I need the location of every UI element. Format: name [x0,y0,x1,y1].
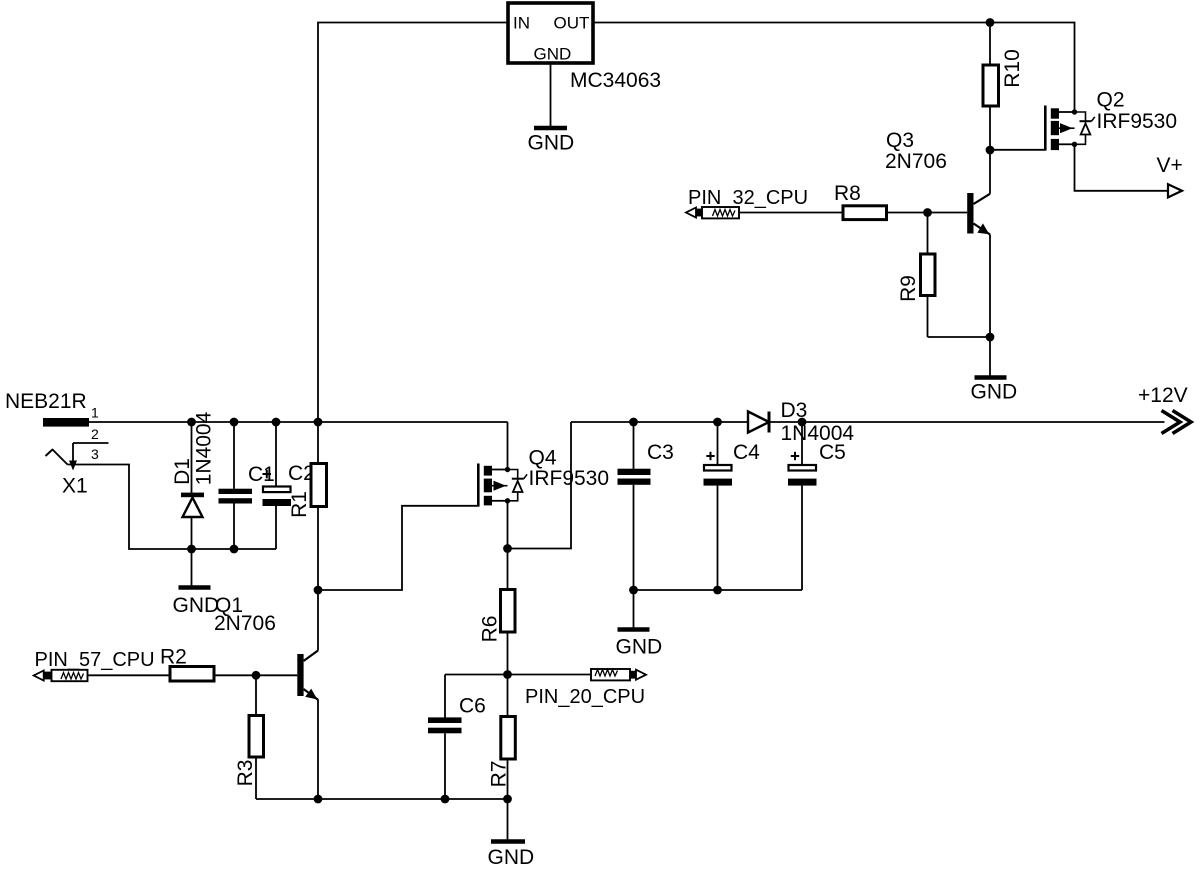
wire pin 3 switch to ground bus [68,465,277,550]
wire Q4 source to node [507,501,509,590]
junction input rail / C2 [272,418,281,427]
resistor R8 [843,206,887,220]
connector X1 pin 3 switch [46,450,68,465]
wire node to C6 [445,674,508,676]
svg-text:C4: C4 [733,441,760,464]
junction Q4 source / R6 / output riser [503,544,512,553]
resistor R7 [501,675,516,800]
wire node to PIN_20_CPU [508,674,592,676]
connector X1 pin 1 blade [43,418,89,427]
resistor R2 [170,667,214,682]
junction ground bus / D1 [187,545,196,554]
junction bottom bus / C6 [441,795,450,804]
wire R8 to Q3 base [887,212,968,214]
output ground bus [634,589,803,591]
svg-text:GND: GND [616,636,663,659]
transistor Q1 2N706 [297,590,318,799]
svg-text:GND: GND [971,381,1018,404]
junction bottom bus / R7 [503,795,512,804]
svg-text:IRF9530: IRF9530 [529,467,610,490]
svg-text:Q2: Q2 [1097,89,1125,112]
ground symbol below Q3 [975,337,1007,378]
connector PIN_57_CPU [34,670,88,681]
connector X1 pin 2 stub [73,443,109,462]
svg-text:GND: GND [173,594,220,617]
resistor R6 [501,590,516,675]
ground symbol below D1 [179,549,211,588]
junction bottom bus / Q1 emitter [314,795,323,804]
wire node to Q2 gate [990,149,1045,151]
junction input rail / C1 [230,418,239,427]
V+ output arrow [1168,184,1182,197]
svg-text:+12V: +12V [1138,384,1188,407]
body diode of Q4 [508,470,528,501]
svg-text:PIN_57_CPU: PIN_57_CPU [35,649,155,671]
svg-text:3: 3 [91,446,99,462]
svg-text:GND: GND [528,132,575,155]
junction R10 / Q3 collector / Q2 gate [986,146,995,155]
wire R2 to Q1 base [214,674,297,676]
junction R1 bottom / Q1 collector / Q4 gate [314,586,323,595]
svg-text:IRF9530: IRF9530 [1097,110,1178,133]
capacitor C2 polarized [263,422,292,549]
svg-text:MC34063: MC34063 [570,69,661,92]
+12V output arrow [1162,411,1192,434]
junction output ground bus / C4 [713,586,722,595]
plus sign of C5 [791,452,799,460]
svg-text:IN: IN [513,14,530,33]
svg-text:R7: R7 [488,761,511,788]
junction output rail / C3 [629,418,638,427]
svg-text:V+: V+ [1157,154,1183,177]
wire input rail pin1 to Q4 drain corner [89,421,508,423]
wire Q2 source to V+ [1075,144,1169,191]
svg-text:R6: R6 [479,616,502,643]
capacitor C6 [428,675,462,800]
svg-text:R9: R9 [897,275,920,302]
svg-text:R8: R8 [834,182,861,205]
connector PIN_32_CPU [686,207,739,218]
junction OUT wire / R10 [986,18,995,27]
svg-text:2N706: 2N706 [214,612,276,635]
capacitor C5 polarized [788,422,817,590]
capacitor C3 [618,422,651,590]
junction output ground bus / C3 [629,586,638,595]
wire Q4 drain drop [507,422,509,470]
svg-text:R1: R1 [288,491,311,518]
junction R6 / R7 / C6 / PIN_20_CPU [503,670,512,679]
wire PIN_57_CPU to R2 [88,674,171,676]
junction ground bus / C1 [230,545,239,554]
svg-text:GND: GND [488,846,535,869]
IC U1 MC34063 box [508,3,593,63]
transistor Q3 2N706 [967,150,990,337]
svg-text:GND: GND [534,45,572,64]
junction input rail / D1 [187,418,196,427]
diode D3 [748,412,769,433]
svg-text:PIN_20_CPU: PIN_20_CPU [525,686,645,708]
svg-text:2N706: 2N706 [885,150,947,173]
junction input rail / R1 riser [314,418,323,427]
ground symbol below MC34063 [534,63,567,128]
wire R1 node to Q4 gate [318,506,478,590]
transistor Q4 IRF9530 P-MOSFET [478,464,510,507]
svg-text:2: 2 [91,426,99,442]
junction output rail / C4 [713,418,722,427]
capacitor C4 polarized [704,422,733,590]
svg-text:1N4004: 1N4004 [193,411,216,485]
resistor R9 [921,213,991,338]
wire input rail riser to MC34063 IN [318,23,508,423]
resistor R3 [249,675,264,799]
svg-text:C5: C5 [819,441,846,464]
ground symbol below R7 [491,799,525,842]
svg-text:X1: X1 [62,475,88,498]
svg-text:PIN_32_CPU: PIN_32_CPU [688,187,808,209]
svg-text:NEB21R: NEB21R [5,390,87,413]
resistor R1 [311,422,327,590]
junction output rail / C5 [798,418,807,427]
svg-text:Q3: Q3 [886,129,914,152]
wire PIN_32_CPU to R8 [739,212,843,214]
connector PIN_20_CPU [591,669,646,680]
plus sign of C2 [263,470,272,479]
svg-text:D1: D1 [171,458,194,485]
wire output rail right segment to +12V [769,421,1165,423]
junction Q3 emitter / R9 [986,333,995,342]
resistor R10 [983,23,999,151]
plus sign of C4 [706,452,714,460]
bottom ground return bus [256,798,508,800]
svg-text:C3: C3 [647,441,674,464]
capacitor C1 [219,422,253,549]
svg-text:C6: C6 [459,695,486,718]
wire Q4 source node to output rail [508,422,572,549]
svg-text:R2: R2 [160,646,187,669]
ground symbol below C3 [618,590,650,630]
svg-text:OUT: OUT [554,14,590,33]
junction R2 / R3 / Q1 base [252,671,261,680]
junction R8 / R9 / Q3 base [923,208,932,217]
diode D1 [181,422,204,549]
wire output rail left segment [571,421,748,423]
svg-text:1: 1 [91,405,99,421]
transistor Q2 IRF9530 P-MOSFET [1045,106,1077,151]
svg-text:R10: R10 [1001,49,1024,88]
wire MC34063 OUT to Q2 drain [593,23,1075,113]
body diode of Q2 [1075,112,1095,144]
connector X1 pin 2 arrow [69,461,77,471]
svg-text:R3: R3 [234,760,257,787]
